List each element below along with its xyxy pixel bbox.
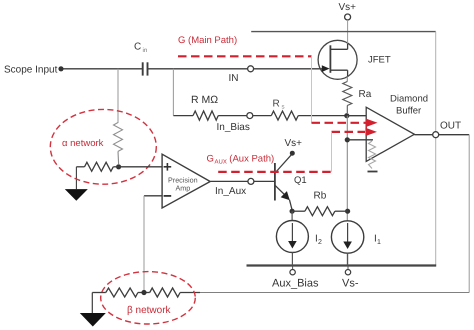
svg-text:OUT: OUT bbox=[440, 121, 461, 132]
internal zigzag to ground bbox=[369, 141, 376, 169]
wire: bottom return line bbox=[190, 292, 469, 294]
ellipse: alpha network bbox=[50, 109, 156, 184]
node: beta junction dot bbox=[141, 290, 146, 295]
svg-text:β network: β network bbox=[127, 305, 172, 316]
red path: aux dashed bbox=[218, 171, 331, 173]
wire: op-amp output to Q1 base bbox=[211, 180, 275, 182]
svg-text:(Aux Path): (Aux Path) bbox=[229, 154, 274, 165]
node In_Bias (open terminal) bbox=[247, 113, 253, 119]
svg-text:s: s bbox=[282, 104, 285, 111]
svg-text:G: G bbox=[207, 154, 214, 165]
svg-text:Q1: Q1 bbox=[294, 175, 307, 186]
svg-text:C: C bbox=[134, 41, 141, 52]
svg-text:Diamond: Diamond bbox=[390, 94, 428, 105]
wire: to buffer lower input bbox=[347, 139, 373, 141]
JFET U1 bbox=[318, 40, 357, 79]
svg-text:R MΩ: R MΩ bbox=[191, 94, 218, 106]
svg-text:Rb: Rb bbox=[314, 191, 327, 202]
wire: to buffer top input bbox=[347, 115, 367, 117]
node IN (open terminal) bbox=[248, 66, 254, 72]
svg-text:α network: α network bbox=[62, 138, 104, 149]
wire: emitter to Rb bbox=[290, 200, 293, 210]
resistor Ra bbox=[343, 82, 352, 106]
resistor Rs bbox=[253, 115, 271, 117]
node OUT bbox=[433, 132, 439, 138]
wire: beta to ground bbox=[91, 293, 93, 314]
wire: drop to R Mohm bbox=[172, 69, 174, 116]
gate arrow bbox=[322, 65, 330, 72]
resistor R Mohm bbox=[173, 115, 193, 117]
resistor beta-2 bbox=[150, 288, 180, 297]
wire: JFET source to Ra bbox=[346, 77, 348, 82]
Aux_Bias terminal bbox=[292, 267, 294, 270]
wire: minus input bbox=[144, 195, 162, 197]
diamond buffer U2 bbox=[366, 107, 414, 161]
ground (beta) bbox=[80, 313, 106, 327]
resistor Rb bbox=[290, 209, 295, 214]
wire: drop to alpha network bbox=[117, 69, 119, 123]
svg-text:IN: IN bbox=[229, 73, 239, 84]
wire: right vertical (feedback) bbox=[435, 32, 437, 266]
current source I1 bbox=[331, 221, 363, 253]
node: buffer lower input junction bbox=[345, 137, 350, 142]
svg-text:G (Main Path): G (Main Path) bbox=[178, 35, 237, 46]
svg-text:Ra: Ra bbox=[359, 89, 372, 100]
wire: alpha to ground bbox=[75, 167, 77, 189]
ellipse: beta network bbox=[101, 272, 196, 324]
node: Q1 collector Vs+ dot bbox=[290, 151, 295, 156]
wire: Vs+ to JFET drain bbox=[347, 20, 349, 44]
svg-text:R: R bbox=[273, 99, 280, 110]
wire: main input wire bbox=[61, 68, 142, 70]
node: Scope Input dot bbox=[58, 66, 63, 71]
red path: vertical link 2 bbox=[331, 132, 333, 172]
op-amp U3 Precision Amp bbox=[162, 154, 210, 208]
resistor: alpha horizontal bbox=[76, 166, 84, 168]
wire: cap to JFET gate bbox=[148, 68, 323, 70]
svg-text:In_Bias: In_Bias bbox=[217, 122, 250, 133]
transistor Q1 bbox=[274, 163, 276, 201]
node In_Aux (open terminal) bbox=[248, 178, 254, 184]
wire: alpha node to plus input bbox=[119, 166, 163, 168]
capacitor Cin bbox=[142, 62, 144, 75]
ground (alpha) bbox=[65, 189, 88, 201]
resistor beta-1 bbox=[106, 288, 138, 297]
svg-text:Buffer: Buffer bbox=[396, 106, 421, 117]
svg-text:1: 1 bbox=[377, 239, 381, 246]
resistor: alpha vertical (light) bbox=[114, 123, 123, 152]
svg-text:in: in bbox=[143, 47, 148, 54]
wire: OUT return right vertical bbox=[468, 135, 470, 293]
wire: minus drop to beta bbox=[143, 196, 145, 293]
svg-text:2: 2 bbox=[318, 239, 322, 246]
svg-text:Vs+: Vs+ bbox=[285, 138, 303, 149]
svg-text:Aux_Bias: Aux_Bias bbox=[272, 278, 319, 290]
heavy bias rail bbox=[247, 264, 437, 266]
svg-text:JFET: JFET bbox=[368, 55, 391, 66]
svg-text:Scope Input: Scope Input bbox=[4, 64, 58, 75]
node: Ra bottom junction bbox=[344, 113, 349, 118]
beta network bbox=[92, 292, 106, 294]
svg-text:Amp: Amp bbox=[176, 184, 191, 193]
red path: vertical link 1 bbox=[311, 56, 313, 123]
wire: buffer output to OUT bbox=[414, 134, 469, 136]
Vs- terminal bbox=[347, 267, 349, 270]
red path: dashed into buffer (upper) bbox=[312, 122, 367, 124]
wire: top feedback rail bbox=[251, 31, 436, 33]
svg-text:AUX: AUX bbox=[215, 159, 227, 166]
current source I2 bbox=[291, 211, 293, 221]
node: alpha junction dot bbox=[116, 164, 121, 169]
wire: column down bbox=[346, 116, 348, 266]
svg-text:In_Aux: In_Aux bbox=[215, 186, 246, 197]
red path: dashed into buffer (lower) bbox=[332, 131, 366, 133]
svg-text:Vs-: Vs- bbox=[342, 278, 359, 290]
svg-text:Vs+: Vs+ bbox=[339, 2, 357, 13]
